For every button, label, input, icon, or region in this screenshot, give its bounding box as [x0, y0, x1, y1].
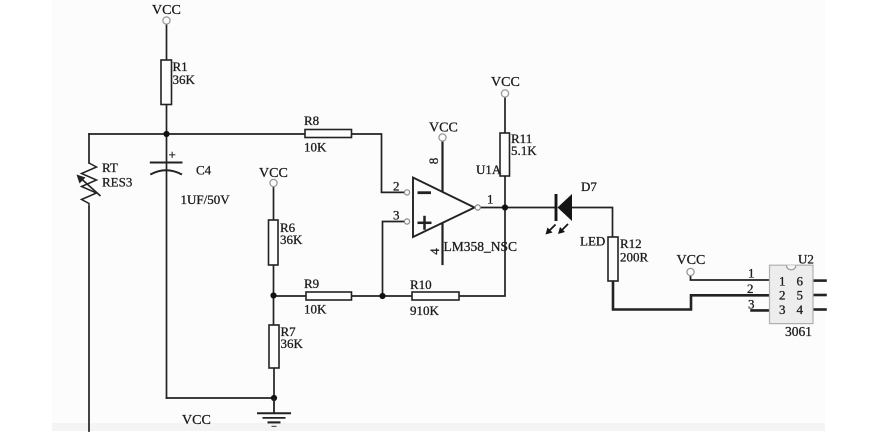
- svg-text:U1A: U1A: [476, 162, 502, 177]
- wire D7 to R12: [572, 208, 613, 238]
- wire R7 bottom to ground node: [273, 368, 275, 398]
- VCC symbol for U2 pin 1: [677, 253, 706, 276]
- LED arrow 2: [562, 224, 569, 231]
- wire R6 bottom through node B to R7 top: [273, 265, 275, 325]
- svg-text:VCC: VCC: [259, 166, 288, 181]
- svg-text:3: 3: [748, 297, 755, 312]
- wire U2 pin 3 stub: [752, 309, 770, 312]
- wire C4 branch vertical x=166: [166, 134, 168, 398]
- svg-text:1: 1: [487, 192, 494, 207]
- svg-text:2: 2: [393, 179, 400, 194]
- node C junction dot: [379, 293, 385, 299]
- wire R10 right to output node: [459, 208, 505, 297]
- node A junction dot: [163, 131, 169, 137]
- svg-text:1UF/50V: 1UF/50V: [181, 192, 231, 207]
- svg-text:R8: R8: [304, 113, 319, 128]
- svg-text:5: 5: [797, 288, 804, 303]
- svg-text:10K: 10K: [304, 140, 327, 155]
- ground node junction dot: [271, 395, 277, 401]
- svg-text:3061: 3061: [785, 324, 812, 339]
- resistor R10: [410, 277, 459, 318]
- wire R1 to node A: [166, 105, 168, 135]
- resistor R1: [161, 59, 196, 105]
- wire R12 bottom route to U2 pin 2: [613, 281, 769, 310]
- svg-text:C4: C4: [196, 163, 212, 178]
- ground: [257, 398, 291, 426]
- wire op-amp power rail pins 8/4: [441, 141, 443, 264]
- thermistor RT RES3: [77, 160, 133, 207]
- svg-text:1: 1: [779, 273, 786, 288]
- svg-text:LED: LED: [580, 234, 605, 249]
- output node junction dot: [502, 204, 508, 210]
- wire R8 right to op-amp pin 2: [352, 134, 405, 192]
- svg-text:910K: 910K: [410, 303, 440, 318]
- svg-text:6: 6: [797, 273, 804, 288]
- svg-text:3: 3: [393, 208, 400, 223]
- resistor R11: [500, 131, 537, 176]
- wire U2 pin 5 stub: [814, 294, 826, 297]
- bottom grey band of scan: [52, 423, 825, 431]
- wire VCC4 to U2 pin 1: [691, 276, 770, 280]
- wire RT bottom going down off page: [88, 207, 90, 431]
- svg-text:VCC: VCC: [491, 75, 520, 90]
- svg-text:36K: 36K: [173, 72, 196, 87]
- resistor R9: [304, 276, 352, 317]
- resistor R8: [304, 113, 352, 155]
- svg-text:VCC: VCC: [677, 253, 706, 268]
- svg-text:1: 1: [748, 266, 755, 281]
- svg-text:200R: 200R: [620, 250, 649, 265]
- svg-text:2: 2: [747, 281, 754, 296]
- resistor R12: [608, 236, 649, 281]
- svg-text:3: 3: [779, 302, 786, 317]
- wire VCC3 to R11: [504, 97, 506, 133]
- wire VCC2 to R6: [273, 186, 275, 220]
- svg-text:U2: U2: [798, 252, 814, 267]
- resistor R6: [269, 220, 304, 265]
- svg-text:RT: RT: [102, 160, 118, 175]
- wire bottom horizontal to ground node: [167, 397, 275, 399]
- node B junction dot: [270, 292, 276, 298]
- svg-text:R10: R10: [410, 277, 432, 292]
- svg-text:36K: 36K: [281, 336, 304, 351]
- wire main horizontal net y=134: [89, 133, 305, 135]
- svg-text:4: 4: [797, 302, 804, 317]
- VCC symbol for R11: [491, 75, 520, 97]
- VCC symbol for R6: [259, 166, 288, 187]
- wire node B to R9: [274, 295, 307, 297]
- svg-text:5.1K: 5.1K: [511, 143, 537, 158]
- svg-text:VCC: VCC: [182, 413, 211, 428]
- svg-text:2: 2: [779, 288, 786, 303]
- svg-text:4: 4: [427, 248, 442, 255]
- connector U2: [747, 252, 814, 340]
- wire R9 to R10 through node C: [352, 295, 413, 297]
- wire op-amp output to diode D7: [481, 207, 556, 209]
- svg-text:R9: R9: [304, 276, 319, 291]
- wire R11 bottom to output node: [504, 176, 506, 208]
- svg-text:RES3: RES3: [102, 175, 132, 190]
- wire VCC1 to R1: [166, 24, 168, 60]
- svg-text:8: 8: [426, 158, 441, 165]
- diode D7 (LED): [546, 179, 606, 249]
- svg-text:+: +: [169, 147, 176, 162]
- capacitor C4: [150, 147, 230, 207]
- wire left branch to RT top: [88, 134, 90, 163]
- wire U2 pin 4 stub: [814, 308, 826, 311]
- svg-text:10K: 10K: [304, 302, 327, 317]
- wire node C up to op-amp pin 3: [383, 222, 405, 297]
- svg-text:36K: 36K: [280, 232, 303, 247]
- svg-text:VCC: VCC: [429, 121, 458, 136]
- svg-text:LM358_NSC: LM358_NSC: [444, 239, 518, 254]
- svg-text:D7: D7: [581, 179, 597, 194]
- op-amp U1A: [393, 158, 517, 255]
- VCC symbol top (node VCC): [152, 3, 181, 24]
- svg-text:VCC: VCC: [152, 3, 181, 18]
- LED arrow 1: [549, 225, 556, 232]
- wire U2 pin 6 stub: [814, 279, 826, 282]
- resistor R7: [269, 324, 304, 368]
- VCC symbol for op-amp pin 8: [429, 121, 458, 142]
